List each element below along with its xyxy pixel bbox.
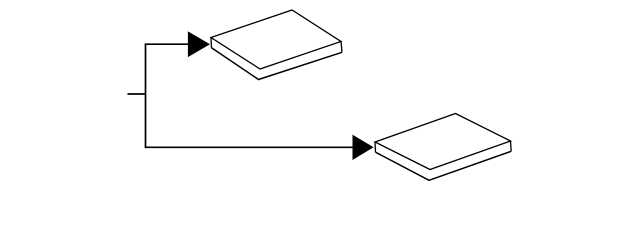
arrowhead to plate 2	[353, 136, 373, 160]
wire to plate 1	[145, 43, 189, 45]
wire vertical branch	[145, 44, 147, 147]
plate 2 top face	[375, 114, 511, 170]
plate 1 left vertical edge	[210, 38, 213, 48]
plate 2 left vertical edge	[374, 142, 377, 152]
arrowhead to plate 1	[188, 32, 209, 56]
plate 1 right vertical edge	[341, 42, 342, 53]
wire to plate 2	[145, 146, 354, 148]
plate 2 right vertical edge	[510, 141, 513, 151]
plate 1 bottom edges	[212, 48, 343, 80]
plate 2 bottom edges	[376, 151, 512, 180]
input stub	[128, 93, 146, 95]
plate 1 top face	[211, 10, 341, 69]
